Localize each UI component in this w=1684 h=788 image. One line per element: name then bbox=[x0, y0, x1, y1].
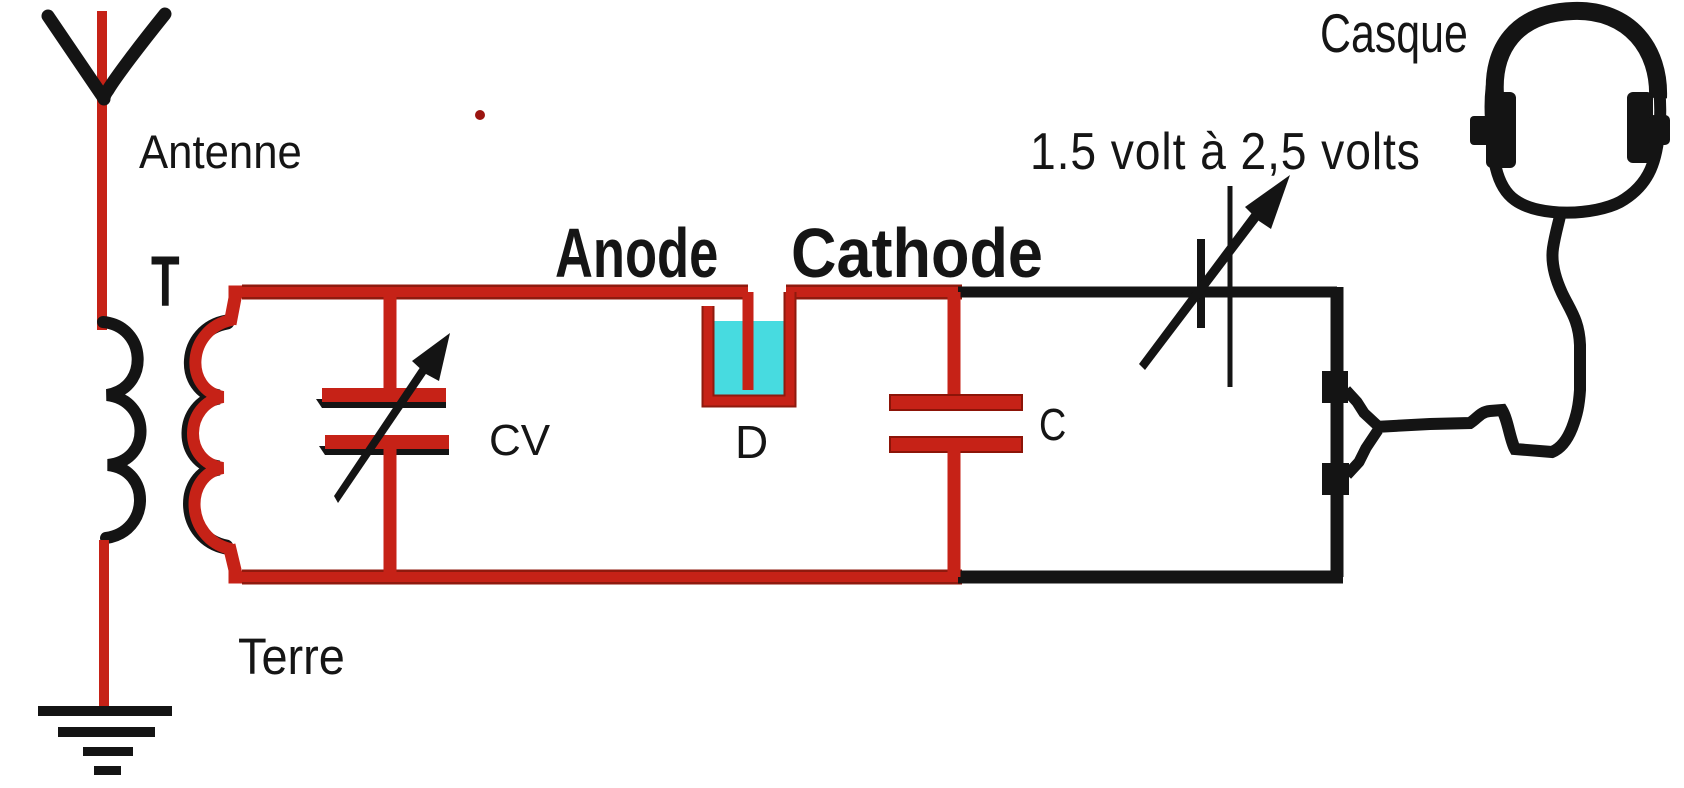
capacitor CV bottom plate shadow bbox=[319, 446, 449, 455]
battery short thick plate bbox=[1197, 239, 1205, 328]
wire: top rail red right segment (cathode to C) bbox=[786, 285, 962, 300]
svg-text:Casque: Casque bbox=[1320, 3, 1468, 64]
wire: right rail black vertical bbox=[1331, 287, 1344, 577]
headphone terminal upper bbox=[1322, 371, 1348, 403]
antenna symbol (black V) bbox=[48, 14, 165, 99]
wire: top rail red left segment (to diode anode) bbox=[242, 285, 748, 300]
capacitor C top plate bbox=[890, 395, 1022, 410]
wire: ground lead (red vertical) bbox=[99, 540, 109, 707]
ground symbol bar 4 bbox=[94, 766, 121, 775]
svg-text:D: D bbox=[735, 416, 768, 468]
svg-text:CV: CV bbox=[489, 416, 551, 465]
svg-text:T: T bbox=[151, 242, 180, 321]
stray red dot bbox=[475, 110, 485, 120]
battery adjustment arrow bbox=[1139, 175, 1290, 370]
wire: antenna lead (red vertical) bbox=[97, 11, 107, 330]
svg-text:C: C bbox=[1039, 399, 1066, 450]
headphone terminal lower bbox=[1322, 463, 1349, 495]
svg-text:Antenne: Antenne bbox=[139, 126, 302, 179]
wire: top rail black segment bbox=[958, 287, 1337, 298]
wire: CV upper connection bbox=[384, 292, 397, 395]
wire: C upper connection bbox=[948, 292, 961, 400]
wire: red loop left side top corner bbox=[230, 292, 250, 324]
transformer T secondary coil (red) bbox=[193, 320, 231, 549]
svg-text:Cathode: Cathode bbox=[791, 215, 1043, 293]
svg-text:1.5 volt à 2,5 volts: 1.5 volt à 2,5 volts bbox=[1030, 123, 1421, 181]
diode D anode electrode (red) bbox=[743, 292, 754, 390]
battery long thin plate bbox=[1228, 186, 1233, 387]
diode D liquid (cyan) bbox=[713, 321, 785, 396]
transformer T secondary coil shadow (black) bbox=[189, 322, 227, 547]
headphone right ear cup bbox=[1627, 92, 1670, 163]
wire: bottom rail black segment bbox=[958, 571, 1343, 584]
headphone left ear cup bbox=[1470, 92, 1516, 168]
capacitor CV bottom plate bbox=[325, 435, 449, 449]
transformer T primary coil (black) bbox=[103, 322, 141, 538]
capacitor CV top plate shadow bbox=[316, 399, 446, 408]
headphone headband / head outline bbox=[1491, 10, 1661, 213]
capacitor CV arrow bbox=[334, 333, 450, 503]
capacitor CV top plate bbox=[322, 388, 446, 402]
svg-text:Anode: Anode bbox=[555, 215, 718, 293]
wire: red loop left side bottom corner bbox=[229, 545, 250, 577]
capacitor C bottom plate bbox=[890, 437, 1022, 452]
ground symbol bar 1 bbox=[38, 706, 172, 716]
wire: C lower connection bbox=[948, 450, 961, 577]
wire: bottom rail red segment bbox=[242, 570, 962, 585]
svg-text:Terre: Terre bbox=[238, 629, 345, 685]
headphone cable Y branch upper bbox=[1346, 390, 1378, 426]
wire: CV lower connection bbox=[384, 449, 397, 577]
headphone cable bbox=[1375, 216, 1580, 452]
diode D cup (red U) bbox=[708, 292, 790, 401]
headphone headband thick top bbox=[1495, 11, 1658, 98]
headphone cable Y branch lower bbox=[1347, 430, 1378, 475]
ground symbol bar 2 bbox=[58, 727, 155, 737]
ground symbol bar 3 bbox=[83, 747, 133, 756]
